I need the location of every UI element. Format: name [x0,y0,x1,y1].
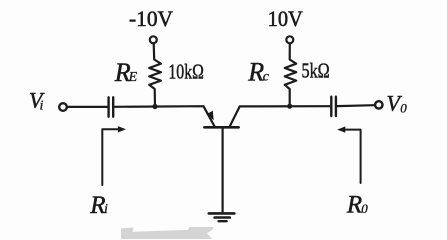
svg-text:-10V: -10V [129,6,173,31]
svg-text:R: R [247,58,264,87]
svg-text:0: 0 [361,201,368,216]
svg-text:0: 0 [400,100,407,115]
svg-text:R: R [346,192,362,219]
svg-text:i: i [40,99,44,114]
svg-text:10kΩ: 10kΩ [168,60,204,84]
svg-text:10V: 10V [268,6,303,31]
svg-text:E: E [128,70,138,85]
svg-text:5kΩ: 5kΩ [302,59,330,83]
svg-text:i: i [104,202,108,217]
svg-text:c: c [263,70,270,85]
